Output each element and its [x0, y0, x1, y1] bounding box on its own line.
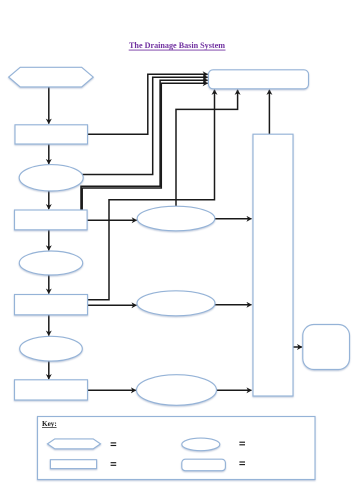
key rounded rectangle: [182, 459, 226, 471]
wire: box3 to ellipse3 arrow: [48, 315, 50, 336]
hexagon (input): [9, 67, 94, 87]
wire: box2 to ellipse2 arrow: [48, 230, 50, 250]
wire: ellipse1 to box2 arrow: [48, 191, 50, 209]
key box: [38, 417, 316, 480]
wire: ellipse1 right to top rounded box (nested 2): [82, 77, 207, 174]
wire: box3 to ellipseB arrow: [88, 304, 137, 306]
wire: ellipseB to tall-box arrow: [215, 304, 251, 306]
wire: box2 to ellipseA arrow: [87, 219, 136, 221]
key rectangle: [50, 460, 96, 469]
key ellipse: [182, 438, 220, 451]
wire: tall-box top to top rounded box bottom: [268, 90, 270, 134]
ellipse B (middle): [137, 291, 215, 316]
box 3: [15, 295, 88, 315]
wire: box1 to ellipse1 arrow: [48, 144, 50, 164]
key hexagon: [48, 439, 101, 449]
wire: tall-box to small rounded box arrow: [293, 346, 302, 348]
box 4: [15, 380, 88, 400]
ellipse 3: [20, 336, 83, 361]
wire: box2 top to top rounded box (nested 4): [82, 83, 207, 210]
svg-text:The Drainage Basin System: The Drainage Basin System: [129, 40, 226, 50]
wire: ellipse3 to box4 arrow: [48, 361, 50, 379]
box 2: [15, 210, 88, 230]
wire: box2 top to top rounded box (nested 3): [81, 80, 208, 210]
box 1: [15, 125, 88, 144]
wire: box4 to ellipseC arrow: [88, 389, 136, 391]
wire: ellipseA top to top rounded box bottom: [176, 90, 238, 206]
tall channel box: [253, 134, 293, 396]
key label: [42, 420, 57, 428]
wire: ellipseA to tall-box arrow: [215, 218, 252, 220]
wire: ellipse2 to box3 arrow: [48, 275, 50, 294]
wire: box1 right to top rounded box (nested 1): [88, 74, 208, 134]
key equals 3: [111, 463, 117, 466]
ellipse A (middle top): [137, 206, 215, 231]
ellipse 2: [19, 251, 82, 275]
small rounded output box: [303, 325, 350, 370]
wire: hexagon to box1 arrow: [48, 87, 50, 124]
key equals 1: [111, 443, 117, 446]
ellipse C (middle bottom): [137, 375, 217, 406]
wire: box3 right up to top rounded box bottom: [88, 90, 215, 300]
svg-text:Key:: Key:: [42, 420, 57, 428]
title: The Drainage Basin System: [129, 40, 226, 50]
top rounded output box: [209, 70, 309, 89]
key equals 2: [239, 442, 245, 445]
ellipse 1: [19, 165, 83, 191]
key equals 4: [239, 462, 245, 465]
wire: ellipseC to tall-box arrow: [217, 389, 252, 391]
